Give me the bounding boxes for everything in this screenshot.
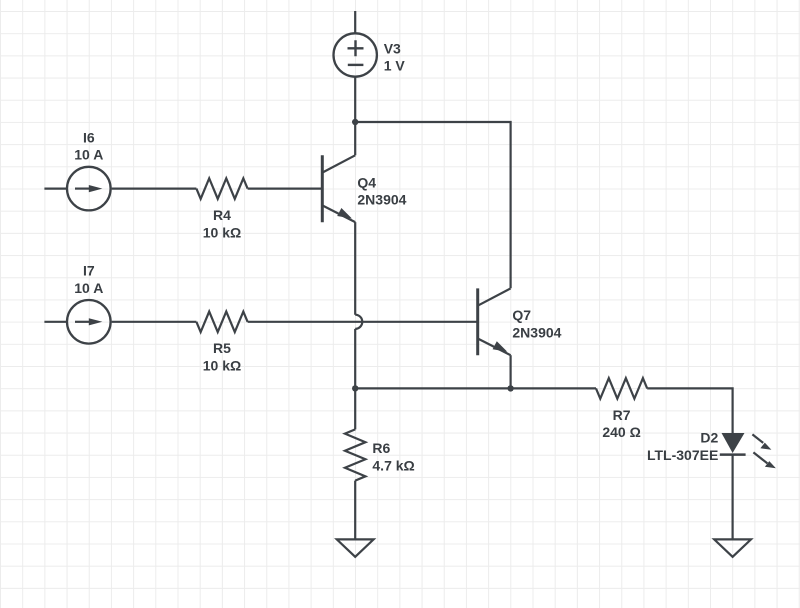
- svg-text:R7: R7: [613, 407, 631, 423]
- svg-text:1 V: 1 V: [384, 58, 406, 74]
- svg-text:R4: R4: [213, 207, 231, 223]
- svg-text:Q7: Q7: [512, 307, 531, 323]
- svg-text:10 A: 10 A: [74, 147, 103, 163]
- svg-text:4.7 kΩ: 4.7 kΩ: [372, 458, 414, 474]
- svg-text:10 kΩ: 10 kΩ: [203, 224, 241, 240]
- svg-text:10 kΩ: 10 kΩ: [203, 358, 241, 374]
- svg-text:Q4: Q4: [357, 174, 376, 190]
- svg-text:R6: R6: [372, 440, 390, 456]
- svg-text:D2: D2: [700, 430, 718, 446]
- svg-text:LTL-307EE: LTL-307EE: [647, 447, 718, 463]
- svg-text:10 A: 10 A: [74, 280, 103, 296]
- svg-text:V3: V3: [384, 40, 401, 56]
- svg-text:240 Ω: 240 Ω: [602, 424, 640, 440]
- svg-text:R5: R5: [213, 340, 231, 356]
- svg-text:2N3904: 2N3904: [357, 192, 406, 208]
- svg-text:I7: I7: [83, 263, 95, 279]
- svg-text:I6: I6: [83, 129, 95, 145]
- svg-text:2N3904: 2N3904: [512, 324, 561, 340]
